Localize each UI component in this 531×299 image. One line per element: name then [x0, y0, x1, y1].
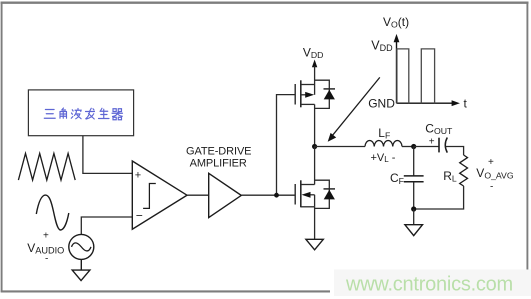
发	[86, 108, 95, 119]
器	[112, 109, 123, 120]
wire: filter node to CF	[413, 147, 415, 176]
wire: inductor to filter node	[402, 146, 414, 148]
wire: upper source to output node	[314, 104, 316, 146]
body diode (lower)	[324, 188, 336, 190]
wire: amp output to gates	[241, 194, 295, 196]
label 三角波发生器 (drawn as paths)	[44, 108, 122, 120]
svg-text:GATE-DRIVE: GATE-DRIVE	[186, 145, 251, 157]
svg-text:-: -	[490, 182, 493, 193]
wire: RL bottom to bottom rail	[414, 186, 464, 209]
wire: comparator output to gate-drive amp	[187, 194, 209, 196]
svg-text:-: -	[45, 254, 48, 265]
sine waveform symbol	[36, 195, 69, 230]
y axis	[396, 40, 398, 103]
svg-text:www.cntronics.com: www.cntronics.com	[345, 274, 513, 296]
inductor LF	[365, 126, 402, 164]
生	[99, 108, 110, 118]
wire: source to comparator - input	[81, 217, 132, 234]
capacitor CF	[390, 171, 424, 186]
graph VO(t)	[368, 15, 467, 110]
wire: COUT to RL corner	[446, 147, 464, 156]
x axis	[397, 102, 453, 104]
node gate junction	[274, 193, 279, 198]
wire: block to comparator + input	[83, 136, 132, 174]
transistor upper MOSFET (PMOS)	[295, 80, 335, 108]
hysteresis step symbol	[143, 184, 156, 209]
wire: output node to inductor	[315, 146, 365, 148]
wire: gate riser	[277, 95, 296, 196]
capacitor COUT	[425, 121, 453, 152]
body diode (upper)	[324, 88, 336, 90]
triangle-wave generator block	[28, 90, 133, 136]
svg-text:+: +	[135, 169, 141, 181]
svg-text:+VL -: +VL -	[371, 152, 396, 164]
supply VDD	[303, 46, 324, 85]
svg-text:−: −	[136, 208, 143, 222]
triangle waveform symbol	[18, 153, 75, 180]
comparator U1	[132, 161, 187, 229]
node bottom	[411, 206, 416, 211]
label VO_AVG	[476, 157, 514, 193]
gate-drive amplifier	[186, 145, 251, 217]
watermark	[334, 270, 531, 297]
svg-text:+: +	[43, 231, 49, 242]
annotation arrow to output node	[328, 77, 380, 141]
ground (audio source)	[72, 259, 90, 280]
角	[60, 108, 67, 118]
pulse 2	[421, 49, 434, 103]
source VAUDIO	[27, 231, 94, 265]
svg-text:+: +	[488, 157, 494, 168]
三	[44, 110, 55, 119]
wire: lower source to ground	[314, 207, 316, 240]
ground (lower MOSFET)	[306, 239, 323, 250]
svg-text:GND: GND	[368, 97, 395, 111]
svg-text:+: +	[429, 136, 435, 147]
resistor RL	[443, 155, 467, 186]
wire: CF to bottom node	[413, 182, 415, 209]
node output	[312, 144, 317, 149]
svg-text:AMPLIFIER: AMPLIFIER	[190, 157, 247, 169]
transistor lower MOSFET (NMOS)	[295, 180, 335, 208]
node filter	[411, 144, 416, 149]
波	[71, 109, 81, 119]
pulse 1	[397, 49, 409, 103]
wire: filter node to COUT	[414, 146, 439, 148]
ground (CF)	[405, 225, 423, 236]
wire: output node to lower drain	[314, 147, 316, 185]
wire: bottom node to ground	[413, 209, 415, 225]
